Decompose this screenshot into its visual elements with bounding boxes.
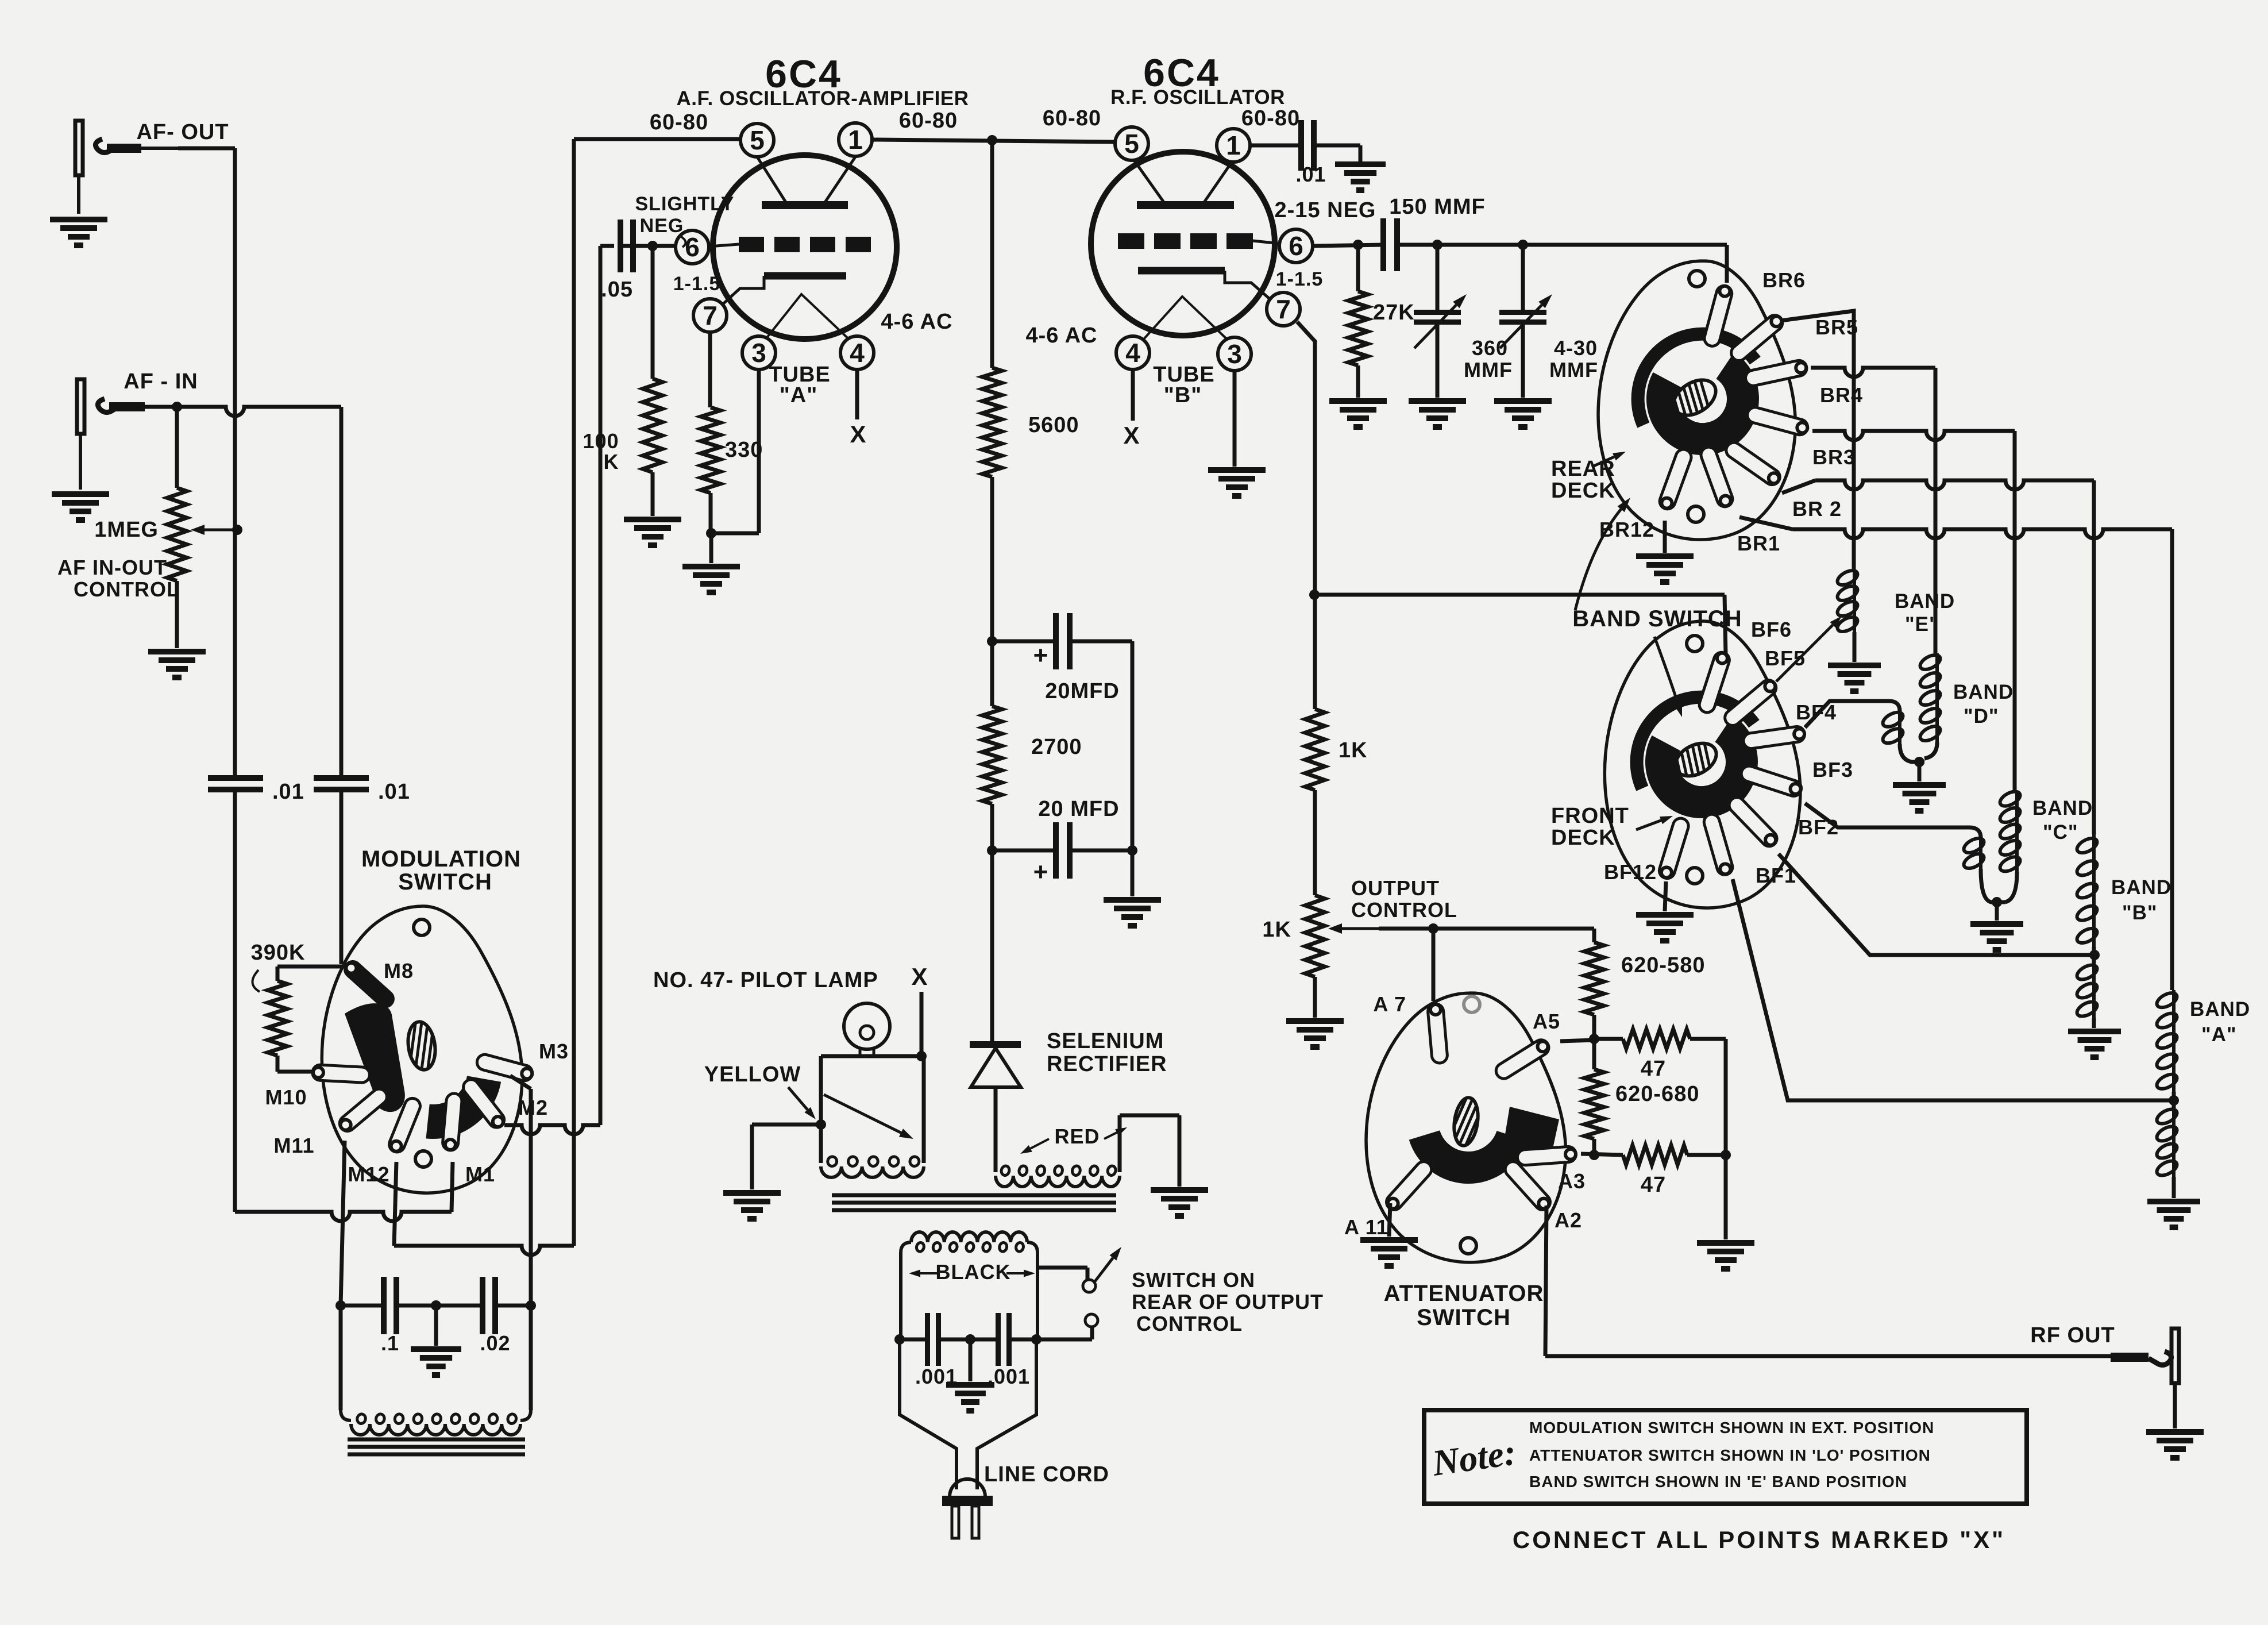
wire BF1 to Band A tap (1733, 879, 2169, 1100)
wire BR1 to Band A (1739, 517, 2172, 990)
ground below 47 chain (1697, 1243, 1754, 1269)
svg-text:M3: M3 (539, 1039, 569, 1063)
svg-text:620-580: 620-580 (1621, 953, 1705, 977)
wire BF2 to Band B tap (1779, 854, 2090, 955)
label 150 MMF (1389, 195, 1485, 219)
tube B pin 3 (1218, 337, 1251, 371)
resistor 5600 (982, 140, 1079, 477)
pilot lamp switch arm (824, 1095, 913, 1139)
coil BAND B upper (2075, 834, 2100, 963)
label BR6 (1762, 268, 1806, 292)
coil BAND E (1835, 568, 1860, 662)
svg-text:150 MMF: 150 MMF (1389, 195, 1485, 219)
label 360 MMF (1464, 336, 1513, 382)
line switch (switch on rear of output control) (1036, 1247, 1121, 1339)
terminal BR5 (1731, 315, 1783, 361)
svg-text:BAND SWITCH: BAND SWITCH (1572, 606, 1742, 631)
coil BAND A upper (2155, 990, 2180, 1108)
attenuator shaft (1412, 1083, 1495, 1157)
svg-text:7: 7 (703, 301, 718, 330)
ground below BR12 (1636, 556, 1694, 582)
coil BAND C trimmer section (1962, 835, 2005, 921)
label 60-80 (right of pin 1B) (1241, 106, 1300, 130)
svg-text:47: 47 (1641, 1173, 1666, 1197)
coil BAND A lower (2155, 1106, 2180, 1198)
svg-text:1K: 1K (1339, 738, 1368, 763)
svg-text:5: 5 (1124, 129, 1139, 159)
curved arrow to rear deck lower (1575, 498, 1630, 610)
label 4-6 AC (tube A) (881, 310, 953, 334)
ground below cap row (411, 1306, 461, 1375)
wire 60-80 bus left (x999 riser to pin5A) (574, 137, 740, 141)
svg-text:BAND: BAND (2111, 876, 2171, 899)
svg-text:BF3: BF3 (1812, 758, 1853, 781)
label 4-6 AC (tube B) (1026, 324, 1098, 348)
svg-text:AF IN-OUT: AF IN-OUT (57, 556, 167, 579)
rear deck switch body (1598, 261, 1795, 540)
label 47 (lower) (1641, 1173, 1666, 1197)
wire pin6A node to .05 cap (620, 241, 676, 251)
label BF1 (1756, 864, 1796, 887)
wire BF5 to Band E tap (1776, 616, 1842, 681)
wire BF3 to Band C tap (1805, 803, 1981, 838)
ground below output control (1286, 1021, 1344, 1047)
ground below .001 caps (946, 1339, 994, 1411)
label YELLOW (704, 1062, 801, 1087)
svg-text:"B": "B" (2122, 902, 2157, 924)
label BAND E (1895, 590, 1955, 636)
label BF4 (1796, 700, 1837, 724)
label 60-80 (left of pin 5B) (1043, 106, 1101, 130)
note line 3 (1529, 1473, 1907, 1491)
tube B pin 7 (1267, 292, 1300, 326)
svg-text:330: 330 (725, 438, 763, 462)
modulation switch body (322, 906, 522, 1193)
svg-text:47: 47 (1641, 1057, 1666, 1081)
line cord plug (942, 1479, 993, 1538)
label BF12 (1604, 860, 1657, 884)
ground below Band D (1893, 785, 1946, 811)
label A7 (1373, 992, 1406, 1016)
svg-text:A.F. OSCILLATOR-AMPLIFIER: A.F. OSCILLATOR-AMPLIFIER (677, 87, 969, 110)
tube A pin 7 (693, 299, 727, 332)
svg-text:6: 6 (685, 232, 700, 262)
svg-text:"E": "E" (1905, 613, 1939, 636)
svg-text:SELENIUM: SELENIUM (1047, 1029, 1164, 1053)
pilot lamp NO.47 bulb (844, 1003, 890, 1056)
svg-text:OUTPUT: OUTPUT (1351, 876, 1440, 900)
ground below pin 3B (1208, 470, 1266, 496)
wire BR2 to Band B (1782, 480, 2094, 834)
wire output control node to A7 (1432, 929, 1436, 1001)
label BAND D (1953, 681, 2014, 727)
audio transformer windings (341, 1306, 531, 1435)
terminal BF4 (1744, 726, 1804, 748)
svg-text:3: 3 (1227, 339, 1242, 369)
svg-text:K: K (604, 450, 619, 473)
label 390K (251, 941, 306, 992)
wire M12 riser to 60-80 (394, 139, 574, 1255)
label SELENIUM RECTIFIER (1047, 1029, 1167, 1076)
terminal BR12 (1660, 449, 1691, 509)
ground below yellow winding (723, 1193, 781, 1219)
ground below 1MEG pot (148, 652, 206, 677)
label 6C4 (tube B) (1143, 51, 1220, 95)
label CONNECT ALL POINTS MARKED X (1513, 1526, 2005, 1553)
svg-text:390K: 390K (251, 941, 306, 965)
label TUBE A (769, 363, 830, 407)
terminal A2 (1505, 1162, 1550, 1210)
front deck rotor (1637, 697, 1754, 802)
svg-text:FRONT: FRONT (1551, 804, 1629, 828)
capacitor .1 (381, 1277, 399, 1355)
label M8 (384, 959, 414, 983)
label 1-1.5 (tube B pin7) (1276, 268, 1324, 290)
label 620-580 (1621, 953, 1705, 977)
label A.F. OSCILLATOR-AMPLIFIER (677, 87, 969, 110)
svg-text:BR4: BR4 (1820, 383, 1863, 407)
wire M2 to pin6A riser (504, 246, 600, 1134)
wire filter node to selenium rectifier (990, 850, 994, 1041)
svg-text:A2: A2 (1555, 1208, 1582, 1232)
capacitor 150 MMF (1383, 218, 1397, 271)
label BAND SWITCH (1572, 606, 1742, 631)
coil BAND D trimmer section (1881, 710, 1924, 781)
label BF6 (1751, 618, 1792, 641)
modulation switch index holes (414, 919, 431, 1167)
svg-text:BAND SWITCH SHOWN IN 'E': BAND SWITCH SHOWN IN 'E' BAND POSITION (1529, 1473, 1907, 1491)
svg-text:BF12: BF12 (1604, 860, 1657, 884)
resistor 47 (lower) (1581, 1145, 1731, 1165)
tube A envelope (6C4 TUBE A) (713, 155, 897, 339)
svg-text:"D": "D" (1964, 705, 1999, 727)
wire BR3 to Band C (1812, 431, 2015, 791)
ground right of .01 (tube B) (1335, 164, 1386, 190)
wire .05 cap to M2 riser corner (600, 244, 614, 248)
svg-text:MMF: MMF (1549, 358, 1598, 382)
svg-text:BF6: BF6 (1751, 618, 1792, 641)
rear deck index holes (1688, 271, 1705, 522)
label A5 (1533, 1010, 1560, 1033)
label BF3 (1812, 758, 1853, 781)
svg-text:X: X (911, 963, 928, 990)
terminal M8 (345, 962, 394, 1007)
svg-text:MMF: MMF (1464, 358, 1513, 382)
wire lower 20MFD to ground (1131, 850, 1135, 896)
wire pin 4B down to X (1131, 369, 1135, 421)
svg-text:5600: 5600 (1028, 413, 1079, 437)
svg-text:2-15 NEG: 2-15 NEG (1275, 198, 1376, 222)
svg-text:+: + (1033, 641, 1049, 669)
variable capacitor 360 MMF (1414, 245, 1467, 398)
selenium rectifier (970, 1045, 1021, 1166)
wire A11 to ground (1389, 1203, 1390, 1237)
wire BR4 to Band D (1811, 368, 1935, 653)
wire 1K to output control pot (1313, 790, 1317, 895)
terminal BR6 (1704, 286, 1732, 346)
svg-text:M8: M8 (384, 959, 414, 983)
label BF5 (1765, 646, 1806, 670)
svg-text:4: 4 (850, 338, 865, 368)
AF-OUT jack J1 (75, 121, 178, 214)
modulation switch shaft (368, 1011, 450, 1085)
wire AF-IN to riser x594 (hop over AF-OUT riser) (145, 402, 341, 416)
pilot lamp winding box (yellow secondary) (816, 1056, 924, 1177)
svg-text:"B": "B" (1164, 383, 1202, 407)
svg-text:4-30: 4-30 (1554, 336, 1598, 360)
label LINE CORD (984, 1462, 1109, 1487)
wire AF-IN riser upper (340, 407, 344, 777)
svg-text:"A": "A" (2201, 1023, 2236, 1046)
cap row wire (.1 and .02) (335, 1300, 536, 1311)
terminal M11 (340, 1089, 387, 1131)
ground below lower 20MFD (1104, 900, 1161, 926)
wire M11 to cap row (341, 1141, 345, 1306)
capacitor .05 (601, 220, 633, 302)
terminal BF12 (1659, 818, 1688, 878)
label BR3 (1812, 445, 1856, 469)
coil BAND D (1918, 652, 1943, 758)
tube B cathode (1138, 271, 1279, 307)
terminal BF6 (1699, 652, 1729, 713)
attenuator rotor (1425, 1107, 1560, 1168)
front deck index holes (1687, 636, 1703, 884)
ground below Band A (2147, 1202, 2200, 1227)
wire M1 to AF-OUT run (452, 1162, 453, 1212)
wire .01 cap to ground (tube B) (1314, 145, 1360, 162)
svg-text:M11: M11 (273, 1134, 314, 1157)
capacitor .02 (480, 1277, 510, 1355)
svg-text:SWITCH: SWITCH (398, 869, 492, 895)
ground below AF-OUT jack (50, 220, 107, 245)
ground below 360 MMF (1409, 401, 1466, 427)
wire 330 to ground node (706, 493, 716, 563)
label AF- OUT (136, 120, 229, 144)
svg-text:DECK: DECK (1551, 479, 1615, 503)
wire 20MFD upper right side down (1131, 641, 1135, 850)
tube A pin 6 (676, 230, 709, 264)
rear deck rotor (1638, 334, 1755, 439)
wire 100K to ground (651, 472, 655, 516)
svg-text:.05: .05 (601, 278, 633, 302)
wire M8 riser (AF-IN feed) (340, 789, 344, 964)
svg-text:1: 1 (1226, 130, 1241, 160)
wire pin1B to .01 cap (1250, 144, 1300, 148)
terminal BR1 (1701, 447, 1733, 507)
resistor 620-680 (1584, 1039, 1604, 1160)
label A3 (1558, 1169, 1586, 1193)
svg-text:BLACK: BLACK (936, 1260, 1011, 1284)
svg-text:CONTROL: CONTROL (74, 577, 180, 601)
wire AF-OUT to vertical riser (178, 148, 235, 777)
arrow BAND SWITCH to front deck (1654, 637, 1682, 717)
tube B heater (1139, 296, 1233, 345)
ground below A11 (1360, 1240, 1418, 1266)
label A11 (1344, 1215, 1388, 1239)
svg-text:MODULATION: MODULATION (361, 846, 521, 872)
svg-text:BAND: BAND (2190, 998, 2250, 1021)
svg-text:AF - IN: AF - IN (124, 369, 198, 394)
capacitor .01 (right, AF-IN line) (314, 778, 410, 804)
label BR1 (1737, 532, 1780, 555)
note box (1424, 1410, 2027, 1504)
wire AF-OUT run to M1 (hops over M11 and M12 wires) (235, 1212, 452, 1221)
label SWITCH ON REAR OF OUTPUT CONTROL (1132, 1268, 1324, 1335)
svg-text:REAR OF OUTPUT: REAR OF OUTPUT (1132, 1290, 1324, 1314)
svg-text:BF2: BF2 (1798, 815, 1839, 839)
svg-text:1MEG: 1MEG (94, 518, 159, 542)
red secondary winding (996, 1115, 1179, 1187)
label BLACK with arrows (909, 1260, 1035, 1284)
svg-text:"C": "C" (2043, 821, 2078, 844)
label M1 (465, 1162, 495, 1186)
svg-text:4: 4 (1125, 338, 1140, 368)
label BR4 (1820, 383, 1863, 407)
wire pin 6B to 150MMF node (1312, 240, 1383, 250)
label BR5 (1815, 315, 1858, 339)
svg-text:NO. 47- PILOT LAMP: NO. 47- PILOT LAMP (653, 968, 878, 992)
svg-text:60-80: 60-80 (650, 110, 708, 134)
label SLIGHTLY NEG (635, 193, 735, 247)
tube A pin 1 (839, 123, 872, 156)
svg-text:20 MFD: 20 MFD (1038, 797, 1119, 821)
svg-text:4-6 AC: 4-6 AC (1026, 324, 1098, 348)
terminal A3 (1517, 1146, 1576, 1165)
ground below Band C (1970, 924, 2023, 950)
ground below RF OUT jack (2146, 1432, 2204, 1458)
capacitor .01 (left, AF-OUT line) (208, 778, 304, 804)
svg-text:+: + (1033, 858, 1049, 886)
label 60-80 (right of pin 1A) (899, 109, 958, 133)
wire pin 7A to 330 resistor (708, 332, 712, 407)
label 6C4 (tube A) (765, 52, 842, 96)
wire X to lamp box (916, 992, 927, 1061)
resistor 47 (upper) (1594, 1029, 1726, 1155)
ground below Band E (1828, 665, 1881, 691)
label BAND C (2032, 797, 2093, 844)
label REAR DECK (1551, 457, 1615, 503)
svg-text:YELLOW: YELLOW (704, 1062, 801, 1087)
wire pin 3A down to 330 node (711, 369, 759, 533)
svg-text:"A": "A" (780, 383, 817, 407)
svg-text:A 11: A 11 (1344, 1215, 1388, 1239)
svg-text:A5: A5 (1533, 1010, 1560, 1033)
arrow FRONT DECK to body (1636, 816, 1673, 830)
label M2 (518, 1096, 548, 1119)
svg-text:X: X (850, 421, 866, 448)
terminal A11 (1387, 1162, 1432, 1210)
terminal BR2 (1726, 442, 1780, 484)
label BR 2 (1792, 497, 1842, 521)
svg-text:1-1.5: 1-1.5 (673, 273, 721, 295)
svg-text:6: 6 (1289, 231, 1303, 261)
resistor 100K (583, 246, 662, 473)
arrow REAR DECK to body (1592, 452, 1626, 467)
resistor 2700 (982, 641, 1082, 804)
svg-text:7: 7 (1276, 294, 1291, 324)
terminal BF3 (1741, 766, 1801, 796)
label X (pilot lamp) (911, 963, 928, 990)
tube B plate (1133, 159, 1234, 205)
svg-text:CONTROL: CONTROL (1136, 1312, 1243, 1335)
tube B envelope (6C4 TUBE B) (1091, 152, 1275, 336)
resistor 620-580 (1584, 929, 1604, 1044)
svg-text:3: 3 (751, 338, 766, 368)
svg-text:M12: M12 (348, 1162, 389, 1186)
wire M3 down to .02 junction (510, 1076, 531, 1306)
svg-text:BR6: BR6 (1762, 268, 1806, 292)
terminal M10 (313, 1065, 369, 1083)
svg-text:.01: .01 (1295, 163, 1326, 186)
wire RF OUT jack to ground (2173, 1383, 2177, 1428)
label R.F. OSCILLATOR (1110, 86, 1285, 109)
svg-text:SWITCH: SWITCH (1417, 1305, 1511, 1330)
coil BAND B lower (2075, 962, 2100, 1028)
svg-text:BR3: BR3 (1812, 445, 1856, 469)
wire A5 to 620 node (1560, 1040, 1594, 1041)
ground below AF-IN jack (52, 494, 109, 520)
rear deck shaft (1637, 361, 1727, 449)
svg-text:M2: M2 (518, 1096, 548, 1119)
potentiometer 1K OUTPUT CONTROL (1305, 895, 1438, 1018)
svg-text:A3: A3 (1558, 1169, 1586, 1193)
label 47 (upper) (1641, 1057, 1666, 1081)
label BF2 (1798, 815, 1839, 839)
attenuator switch body (1366, 993, 1565, 1262)
svg-text:.01: .01 (378, 780, 410, 804)
label 2-15 NEG (1275, 198, 1376, 222)
svg-text:620-680: 620-680 (1615, 1082, 1699, 1106)
power transformer core (832, 1195, 1116, 1210)
capacitor 20 MFD (lower) (992, 822, 1137, 886)
ground below 4-30 MMF (1494, 401, 1552, 427)
svg-text:M10: M10 (265, 1085, 307, 1109)
terminal M1 (443, 1093, 462, 1150)
line filter wire (.001 row) (894, 1334, 1042, 1345)
wire 5600 to filter node (987, 477, 997, 646)
label 1-1.5 (tube A pin7) (673, 273, 721, 295)
tube A plate (757, 157, 855, 205)
label OUTPUT CONTROL (1351, 876, 1457, 922)
ground below 100K (624, 519, 681, 545)
svg-text:60-80: 60-80 (899, 109, 958, 133)
wire 27K to ground (1356, 365, 1360, 398)
label BR12 (1599, 518, 1654, 541)
wire pin1A to pin5B (60-80 bus) (872, 135, 1116, 145)
svg-text:DECK: DECK (1551, 826, 1615, 850)
note line 1 (1529, 1419, 1934, 1437)
wire 2700 to lower cap node (987, 804, 997, 856)
terminal BF2 (1729, 798, 1777, 846)
svg-text:.1: .1 (381, 1331, 399, 1355)
terminal BR4 (1746, 360, 1807, 386)
wire lamp box to ground (752, 1125, 821, 1189)
terminal A5 (1496, 1040, 1549, 1079)
potentiometer 1MEG AF IN-OUT CONTROL (167, 407, 242, 648)
label 1K (output control) (1262, 918, 1291, 942)
terminal A7 (1428, 1004, 1448, 1063)
svg-text:4-6 AC: 4-6 AC (881, 310, 953, 334)
resistor 330 (701, 407, 763, 493)
coil BAND C (1998, 788, 2023, 902)
ground right of red winding (1151, 1190, 1208, 1216)
capacitor 20MFD (upper) (992, 613, 1132, 703)
wire BF12 to ground (1665, 881, 1666, 911)
label BAND A (2190, 998, 2250, 1046)
label M3 (539, 1039, 569, 1063)
tube B grid (1118, 233, 1280, 249)
label AF - IN (124, 369, 198, 394)
